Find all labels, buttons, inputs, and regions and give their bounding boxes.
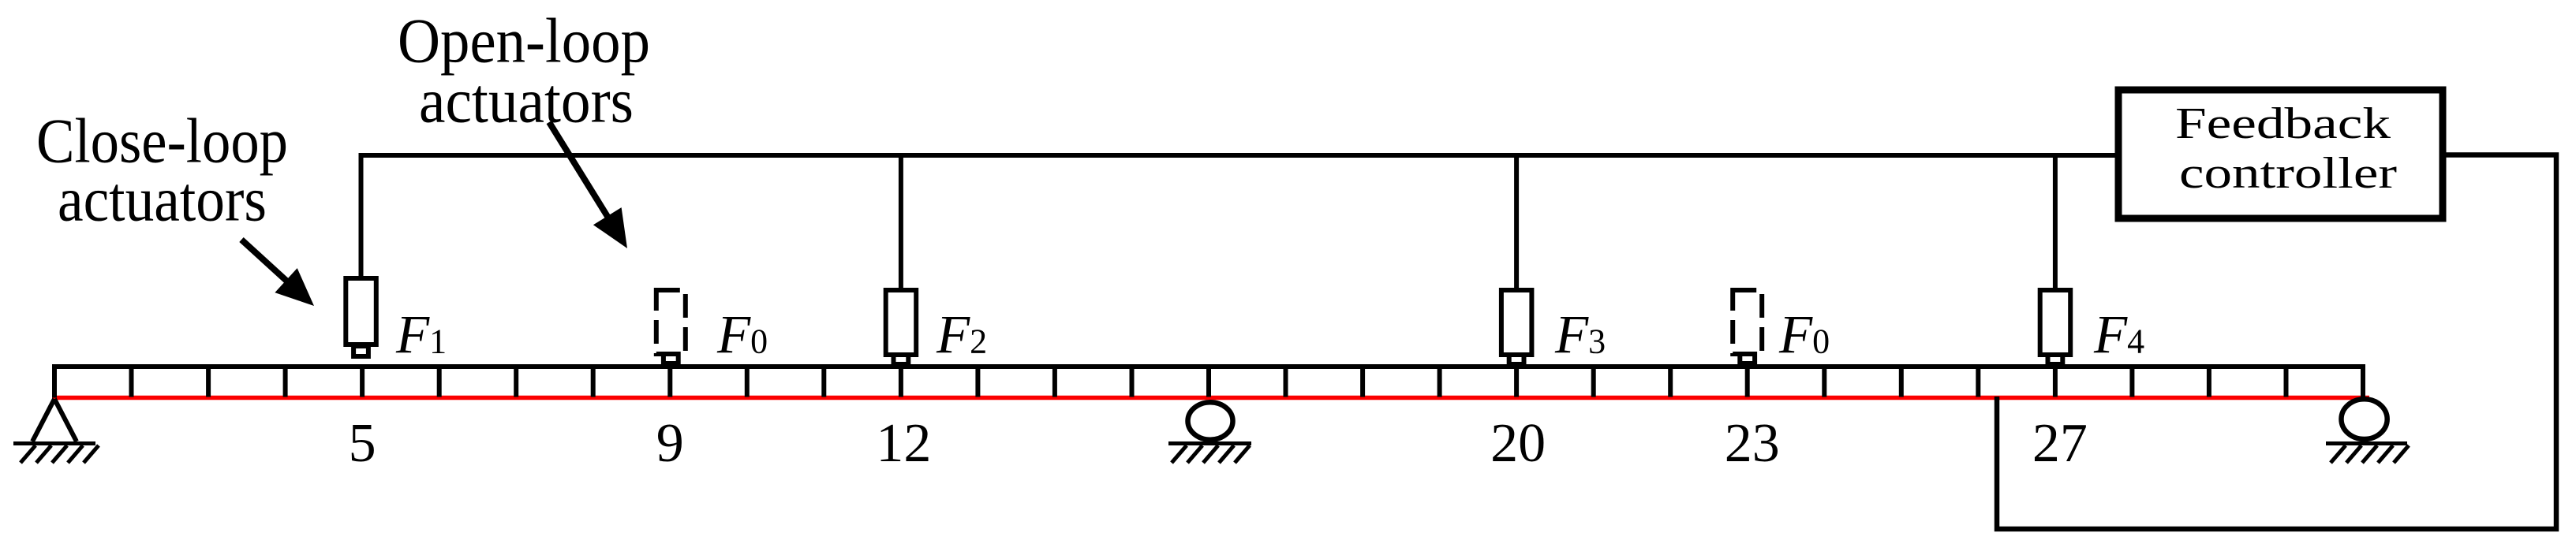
text label close-loop actuators — [36, 107, 288, 235]
actuator F1 close-loop at node 5 — [346, 278, 376, 356]
svg-text:27: 27 — [2032, 413, 2088, 474]
ground roller support middle (node 16) — [1168, 402, 1251, 463]
actuator F0 open-loop at node 9 — [656, 290, 686, 363]
feedback controller box — [2118, 90, 2443, 218]
svg-text:20: 20 — [1490, 413, 1546, 474]
svg-text:Feedback: Feedback — [2175, 99, 2391, 148]
svg-text:23: 23 — [1725, 413, 1780, 474]
wire beam right end — [2361, 364, 2365, 398]
node ticks (element divisions) — [132, 367, 2286, 397]
ground pinned support left — [13, 399, 99, 463]
wire beam bottom chord (red) — [52, 396, 2369, 400]
actuator F4 close-loop at node 27 — [2040, 290, 2071, 364]
svg-text:actuators: actuators — [419, 67, 634, 136]
actuator F0 open-loop at node 23 — [1733, 290, 1762, 363]
svg-text:actuators: actuators — [58, 166, 267, 235]
svg-text:5: 5 — [349, 413, 376, 474]
svg-text:9: 9 — [656, 413, 684, 474]
wire beam top chord — [52, 364, 2365, 369]
wire control bus from node 5 to controller — [361, 155, 2119, 277]
arrow annotation to open-loop actuator — [549, 122, 627, 248]
svg-text:controller: controller — [2179, 149, 2397, 198]
text label open-loop actuators — [398, 7, 650, 136]
svg-text:Open-loop: Open-loop — [398, 7, 650, 76]
wire feedback loop right side and bottom — [1997, 155, 2556, 530]
svg-text:12: 12 — [876, 413, 931, 474]
actuator F2 close-loop at node 12 — [886, 290, 917, 364]
wire drop to actuator F4 — [2053, 155, 2058, 290]
arrow annotation to close-loop actuator — [241, 240, 314, 306]
actuator F3 close-loop at node 20 — [1501, 290, 1532, 364]
wire beam left end — [52, 364, 57, 398]
wire drop to actuator F3 — [1514, 155, 1519, 290]
ground roller support right (node 31) — [2326, 399, 2409, 463]
wire drop to actuator F2 — [899, 155, 903, 290]
